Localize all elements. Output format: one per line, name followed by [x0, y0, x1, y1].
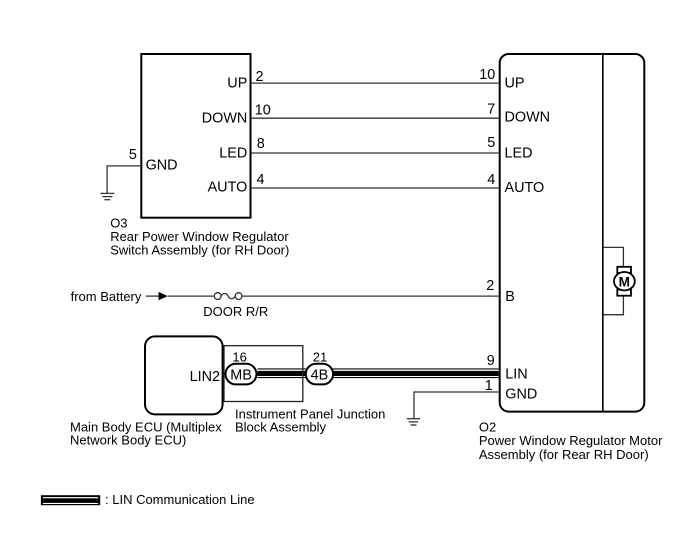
svg-text:4: 4	[257, 172, 265, 188]
svg-text:DOWN: DOWN	[505, 110, 551, 126]
svg-text:10: 10	[479, 67, 495, 83]
svg-text:from Battery: from Battery	[71, 289, 142, 304]
arrow head battery feed	[159, 292, 168, 300]
svg-text:AUTO: AUTO	[208, 180, 248, 196]
svg-text:DOOR R/R: DOOR R/R	[203, 304, 268, 319]
motor brush bottom	[617, 290, 631, 296]
svg-text:Switch Assembly (for RH Door): Switch Assembly (for RH Door)	[110, 243, 289, 258]
svg-text:Network Body ECU): Network Body ECU)	[70, 432, 186, 447]
svg-text:B: B	[505, 289, 515, 305]
wire battery to breaker	[168, 295, 215, 297]
svg-text:10: 10	[255, 103, 271, 119]
svg-text:LIN2: LIN2	[190, 369, 220, 385]
label junction block annotation	[235, 407, 385, 435]
circuit breaker DOOR R/R	[214, 293, 242, 300]
svg-text:4B: 4B	[311, 368, 329, 384]
svg-text:1: 1	[485, 378, 493, 394]
svg-text:2: 2	[486, 278, 494, 294]
svg-text:LED: LED	[219, 146, 247, 162]
svg-text:21: 21	[313, 350, 327, 365]
svg-text:9: 9	[487, 353, 495, 369]
label main body ECU annotation	[70, 419, 222, 447]
legend LIN line sample	[41, 495, 100, 505]
wire GND (O2 pin1 to ground)	[414, 392, 499, 418]
label O2 annotation	[479, 420, 663, 462]
wire breaker to O2 pin B	[242, 295, 499, 297]
svg-text:UP: UP	[505, 76, 525, 92]
svg-text:Assembly (for Rear RH Door): Assembly (for Rear RH Door)	[479, 447, 649, 462]
wire UP (O3 pin2 to O2 pin10)	[252, 82, 499, 84]
wire LED (O3 pin8 to O2 pin5)	[252, 152, 499, 154]
wire from battery	[146, 295, 159, 297]
svg-text:4: 4	[487, 172, 495, 188]
svg-text:5: 5	[487, 135, 495, 151]
svg-text:M: M	[619, 274, 630, 289]
svg-text:Power Window Regulator Motor: Power Window Regulator Motor	[479, 433, 663, 448]
motor wiring stubs	[604, 247, 624, 267]
junction block box	[224, 346, 303, 402]
main body ECU box	[145, 336, 223, 414]
svg-text:LIN: LIN	[505, 367, 527, 383]
connector oval MB	[226, 364, 257, 385]
motor brush top	[617, 267, 631, 273]
svg-text:8: 8	[257, 136, 265, 152]
svg-text:UP: UP	[227, 75, 247, 91]
connector divider line (O2)	[602, 55, 604, 411]
svg-text:LED: LED	[505, 145, 533, 161]
svg-text:Block Assembly: Block Assembly	[235, 420, 327, 435]
connector oval 4B	[306, 364, 333, 385]
label O3 annotation	[110, 216, 289, 258]
ground (O3)	[100, 193, 114, 199]
switch assembly box O3	[141, 54, 250, 218]
svg-text:7: 7	[487, 102, 495, 118]
wire DOWN (O3 pin10 to O2 pin7)	[252, 117, 499, 119]
wire GND (O3 pin5 to ground)	[107, 166, 140, 193]
motor M1	[614, 272, 635, 290]
wire AUTO (O3 pin4 to O2 pin4)	[252, 187, 499, 189]
svg-text:16: 16	[232, 350, 246, 365]
svg-text:AUTO: AUTO	[505, 180, 545, 196]
svg-text:5: 5	[129, 147, 137, 163]
motor assembly box O2	[500, 54, 645, 412]
ground (O2)	[407, 419, 420, 425]
svg-text:: LIN Communication Line: : LIN Communication Line	[105, 492, 255, 507]
svg-text:GND: GND	[146, 157, 178, 173]
svg-text:GND: GND	[505, 387, 537, 403]
svg-text:DOWN: DOWN	[202, 111, 248, 127]
LIN communication line (thick) MB to O2 pin9	[258, 368, 499, 378]
svg-text:MB: MB	[230, 368, 252, 384]
